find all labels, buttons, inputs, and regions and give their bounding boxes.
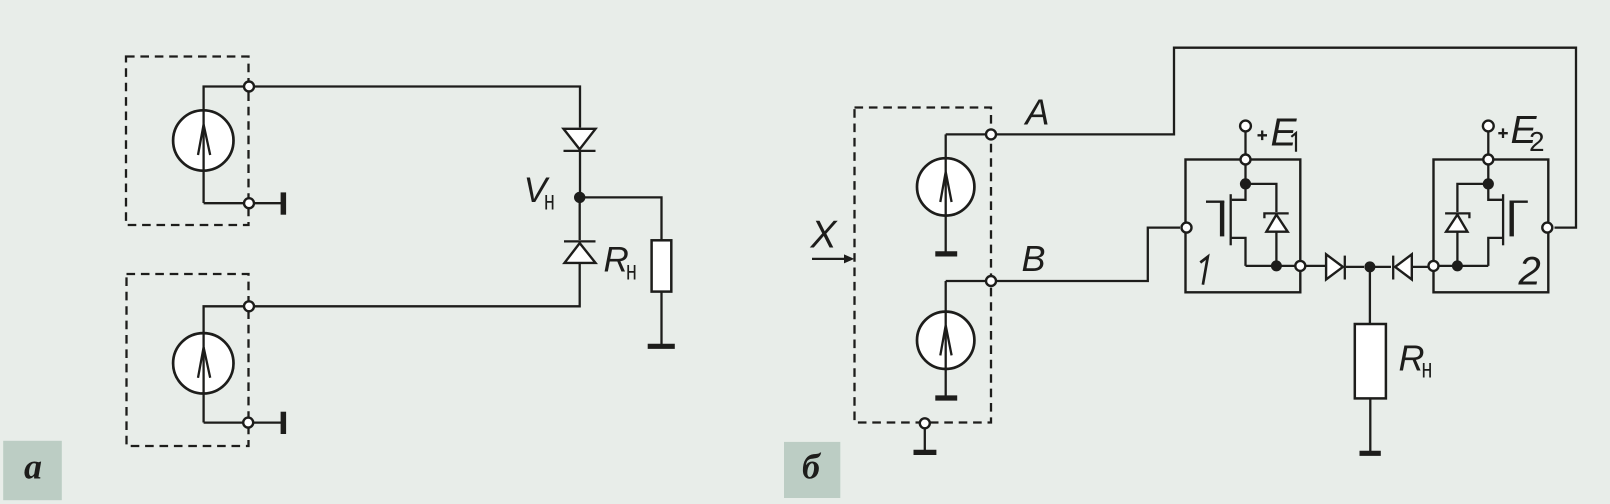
wire into block 1 [1244, 165, 1246, 181]
T-bar contact 2 [281, 412, 287, 434]
current source G4 [917, 281, 974, 396]
wire A to block 2 (top route) [997, 48, 1577, 228]
wire VD5 to node [1346, 266, 1364, 268]
current source G3 [917, 134, 974, 251]
current source G2 [173, 333, 233, 422]
diode VD1 (cathode down) [564, 129, 596, 151]
supply terminal E1 [1240, 121, 1251, 132]
svg-text:E: E [1271, 111, 1298, 154]
gate terminal (block 1 left) [1182, 223, 1192, 233]
input terminal (block 2 left) [1429, 261, 1439, 271]
wire G4 to terminal B [946, 280, 985, 282]
node Vn dot [574, 192, 585, 203]
block 1 box [1186, 160, 1301, 293]
wire to T-bar contact [255, 202, 282, 204]
T-bar contact 1 [281, 192, 287, 214]
terminal A [986, 129, 996, 139]
svg-text:н: н [626, 255, 637, 286]
block 2 source rail [1438, 265, 1488, 267]
junction dot (block 2 source) [1452, 260, 1463, 271]
wire to ground [924, 429, 926, 450]
wire node to load [1369, 267, 1371, 324]
current source G1 [173, 110, 233, 203]
svg-text:R: R [1399, 338, 1425, 379]
terminal B [986, 276, 996, 286]
output node dot [1364, 261, 1375, 272]
body diode VD3 [1246, 184, 1289, 266]
wire into block 2 [1487, 165, 1489, 181]
body diode VD4 [1445, 184, 1488, 266]
box edge terminal (block 1 top) [1241, 155, 1251, 165]
wire to T-bar contact 2 [254, 421, 281, 423]
dashed box source 1 [126, 57, 249, 226]
wire VD2 to source 2 terminal [255, 263, 580, 306]
wire node to load branch [580, 197, 662, 240]
output terminal (block 1 right) [1295, 261, 1305, 271]
svg-text:н: н [1422, 353, 1433, 384]
wire G2 bottom to terminal [204, 421, 243, 423]
svg-text:A: A [1024, 92, 1050, 133]
panel label b [784, 442, 840, 498]
terminal (top of source 1) [244, 82, 254, 92]
label +E2 [1498, 109, 1544, 157]
dashed box source 2 [127, 274, 249, 446]
ground bar (b input) [914, 450, 937, 455]
wire resistor to ground [1369, 398, 1371, 451]
wire VD1 to node [579, 152, 581, 192]
terminal common (box bottom) [920, 418, 930, 428]
box edge terminal (block 2 top) [1483, 155, 1493, 165]
svg-text:2: 2 [1529, 126, 1545, 157]
resistor Rn (a) [652, 240, 672, 291]
ground bar (b load) [1360, 451, 1381, 456]
wire terminal to G2 [204, 306, 245, 333]
svg-text:а: а [24, 447, 42, 487]
svg-text:B: B [1022, 238, 1046, 279]
wire G1 bottom to terminal [204, 202, 245, 204]
junction dot (block 1 source) [1271, 260, 1282, 271]
terminal (bottom of source 2) [243, 418, 253, 428]
label 1 [1200, 257, 1208, 285]
common bar under G4 [935, 395, 957, 400]
wire VD6 to block 2 [1370, 266, 1428, 268]
block 2 box [1434, 160, 1549, 293]
diode VD5 (points right) [1326, 254, 1345, 279]
wire block1 out to diode VD5 [1306, 265, 1326, 267]
wire G3 to terminal A [946, 133, 985, 135]
diode VD2 (cathode up) [564, 241, 596, 263]
junction dot (block 2 drain) [1483, 178, 1494, 189]
ground bar (a) [648, 344, 675, 349]
terminal (top of source 2) [244, 301, 254, 311]
gate terminal (block 2 right) [1542, 223, 1552, 233]
label +E1 [1258, 111, 1298, 154]
wire E1 to box [1244, 132, 1246, 155]
wire E2 to box [1487, 132, 1489, 155]
resistor Rn (b) [1355, 324, 1386, 398]
svg-text:б: б [802, 447, 822, 487]
svg-text:R: R [604, 240, 629, 279]
wire terminal to diode VD1 [255, 87, 581, 128]
wire B to block 1 gate input [997, 228, 1181, 281]
panel label a [3, 441, 62, 500]
svg-text:X: X [810, 213, 839, 256]
MOSFET VT2 [1488, 184, 1528, 266]
wire node to diode VD2 [579, 197, 581, 240]
block 1 source rail [1246, 265, 1296, 267]
svg-text:н: н [544, 185, 555, 216]
common bar under G3 [935, 251, 957, 256]
junction dot (block 1 drain) [1240, 178, 1251, 189]
wire resistor to ground [660, 292, 662, 344]
MOSFET VT1 [1206, 184, 1246, 266]
supply terminal E2 [1483, 121, 1494, 132]
svg-text:2: 2 [1518, 250, 1541, 294]
diode VD6 (points left) [1393, 254, 1412, 279]
terminal (bottom of source 1) [244, 198, 254, 208]
wire G1 top to terminal [204, 87, 245, 111]
input arrow [812, 254, 854, 263]
dashed box optocoupler input [855, 108, 992, 423]
